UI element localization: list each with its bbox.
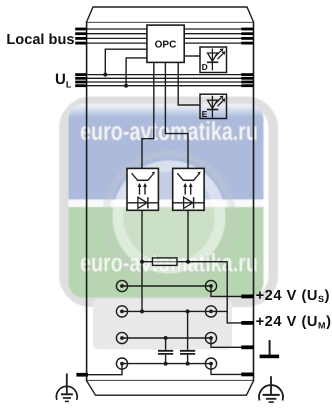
UL power rail lines (87, 75, 254, 86)
terminal zone shading (93, 299, 232, 350)
row 4 wire (122, 363, 211, 365)
+24V Um stub (241, 321, 253, 325)
local bus connector bars right (241, 28, 253, 45)
junction dot cap1 row4 (164, 362, 168, 366)
terminal row4 right (205, 358, 216, 369)
module body outline (87, 22, 254, 381)
UL connector bars left (75, 73, 86, 87)
wire optocoupler 1 output down to row 2 (141, 210, 143, 311)
svg-text:euro-avtomatika.ru: euro-avtomatika.ru (80, 116, 258, 146)
terminal row4 left (116, 358, 127, 369)
capacitor C1 (158, 338, 173, 364)
svg-text:+24 V (UM): +24 V (UM) (256, 314, 332, 330)
wire OPC pin1 to optocoupler 1 (142, 62, 154, 168)
row 1 wire (122, 285, 211, 287)
junction dot cap1 row3 (164, 336, 168, 340)
wire row4 terminal to PE stub right (211, 364, 242, 375)
watermark outer ring (106, 154, 233, 281)
module bottom face (87, 381, 254, 396)
wire OPC to LED D (184, 55, 200, 57)
wire OPC pin2 to optocoupler 2 (165, 62, 188, 168)
row 3 wire (122, 337, 211, 339)
OPC controller U1 (147, 25, 184, 62)
watermark white ring (118, 166, 220, 268)
junction dot opto1 row2 (140, 309, 144, 313)
terminal row3 right (205, 332, 216, 343)
wire OPC to UL line 4 (126, 58, 147, 86)
svg-text:D: D (202, 62, 208, 72)
terminal row3 left (116, 332, 127, 343)
watermark inner veil (124, 172, 215, 263)
wire row4 terminal to PE stub left (86, 364, 122, 375)
+24V Us stub (241, 295, 253, 299)
local bus connector bars left (75, 28, 86, 45)
PE stub right (241, 373, 253, 377)
wire row3 terminal to FE stub (211, 338, 242, 347)
junction dot resistor rail left (140, 260, 144, 264)
watermark white stripe (69, 200, 264, 208)
terminal row2 right (205, 306, 216, 317)
ground right (259, 376, 283, 402)
functional earth symbol (260, 340, 280, 358)
optocoupler 1 (127, 168, 158, 210)
supply feed wire to +24V stubs (227, 262, 242, 323)
svg-text:UL: UL (55, 71, 72, 90)
wire OPC pin3 to LED E (178, 62, 200, 105)
watermark text top (80, 116, 258, 146)
terminal row2 left (116, 306, 127, 317)
LED E indicator (200, 94, 227, 119)
local bus lines right (184, 29, 253, 43)
wire row2 terminal to feed (211, 310, 227, 312)
wire row1 terminal to Us stub (211, 286, 242, 296)
junction dot UL line 4 (124, 84, 128, 88)
watermark badge border (64, 101, 273, 302)
wire OPC to UL line 1 (105, 49, 147, 74)
svg-text:OPC: OPC (155, 40, 177, 51)
local bus lines left (87, 29, 147, 43)
junction dot cap2 row4 (186, 362, 190, 366)
WATERMARK LAYER (64, 101, 273, 302)
watermark blue stripe (69, 104, 264, 200)
LED D indicator (200, 47, 227, 73)
watermark green stripe (69, 207, 264, 298)
watermark text bottom (80, 247, 258, 277)
ground left (56, 374, 77, 402)
capacitor C2 (180, 311, 195, 363)
row 2 wire (122, 310, 211, 312)
wire optocoupler 2 output down to resistor rail (187, 210, 189, 261)
junction dot UL line 1 (103, 73, 107, 77)
svg-text:Local bus: Local bus (6, 32, 74, 48)
terminal row1 right (205, 280, 216, 291)
module top face (87, 7, 254, 22)
svg-text:E: E (202, 109, 208, 119)
svg-text:+24 V (US): +24 V (US) (256, 288, 330, 304)
junction dot cap2 row2 (186, 309, 190, 313)
FE stub right (241, 345, 253, 349)
resistor rail wire (142, 261, 227, 263)
terminal row1 left (116, 280, 127, 291)
optocoupler 2 (173, 168, 204, 210)
PE stub left (76, 373, 88, 377)
junction dot resistor rail right (186, 260, 190, 264)
UL connector bars right (241, 73, 253, 87)
resistor R1 (153, 258, 178, 266)
